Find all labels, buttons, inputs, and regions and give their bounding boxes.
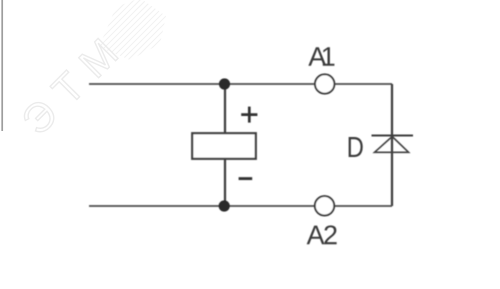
polarity plus [241,107,257,123]
left page edge line [1,0,3,131]
wire: top right to corner [335,83,392,85]
wire: right vertical through diode [391,84,393,206]
watermark text ЭТМ [20,38,118,136]
polarity minus [239,177,253,180]
watermark logo hatching [70,0,191,91]
label A1 [308,47,334,66]
terminal A2 circle [315,196,334,215]
label D [349,137,363,157]
coil/component rectangle [192,133,256,159]
diode D cathode bar [372,135,414,137]
junction node top [219,78,230,89]
diode D triangle [375,137,409,153]
wire: coil branch upper [224,84,226,133]
wire: top left horizontal [89,83,315,85]
label A2 [307,225,337,244]
wire: coil branch lower [224,159,226,206]
wire: bottom left horizontal [89,205,315,207]
junction node bottom [219,200,230,211]
wire: bottom right from corner [334,205,392,207]
terminal A1 circle [315,74,334,93]
